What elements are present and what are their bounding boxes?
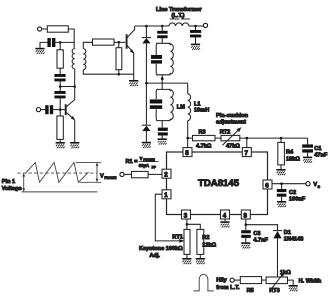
arrowheads measure [22, 162, 98, 192]
pin 4 [221, 210, 230, 219]
inductor LT (line transformer winding) [169, 23, 189, 26]
ground [158, 138, 167, 144]
junction [161, 25, 164, 28]
wire pin3 down [186, 219, 188, 229]
svg-text:TDA8145: TDA8145 [198, 178, 240, 189]
pin 5 [183, 148, 192, 157]
svg-text:R2: R2 [202, 235, 209, 241]
wire [245, 238, 247, 242]
wire [41, 109, 46, 111]
terminal frame drive [120, 172, 124, 176]
junction [118, 73, 121, 76]
pin 6 [263, 180, 272, 189]
ground [191, 44, 200, 50]
capacitor tank2 LM [150, 99, 162, 109]
ground [182, 258, 191, 264]
resistor Ra (input 1 series) [47, 26, 68, 32]
terminal input 2 [36, 108, 40, 112]
wire [59, 139, 61, 142]
wire [59, 81, 61, 91]
wire [145, 43, 147, 124]
diode Db [142, 125, 151, 131]
transformer secondary [83, 49, 86, 70]
resistor R4 [278, 142, 285, 165]
resistor Rb (vertical) [57, 50, 63, 68]
wiper arrow RT2 [222, 127, 241, 145]
wire [161, 38, 163, 43]
svg-text:7: 7 [245, 150, 249, 157]
wire [60, 86, 74, 88]
wire [124, 173, 131, 175]
junction [246, 137, 249, 140]
wire L1 to pin5 [187, 121, 189, 148]
label Vframe [100, 174, 117, 180]
label R1 formula [126, 156, 159, 170]
capacitor C1 [302, 144, 313, 152]
svg-text:Pin-cushion: Pin-cushion [216, 113, 249, 119]
svg-text:RT3: RT3 [269, 288, 280, 294]
diode Da [142, 38, 151, 44]
resistor R5 [240, 277, 261, 284]
wire [281, 197, 283, 201]
junction [245, 223, 248, 226]
svg-text:2: 2 [164, 172, 168, 179]
svg-text:S: S [318, 185, 321, 189]
svg-text:PP: PP [152, 165, 157, 169]
svg-text:R1 =: R1 = [126, 159, 139, 165]
ground [142, 142, 151, 148]
wire Q2 collector [74, 69, 76, 100]
junction [194, 25, 197, 28]
svg-text:6: 6 [265, 182, 269, 189]
arrow keystone [179, 239, 184, 243]
junction [186, 223, 189, 226]
resistor Rd (base series) [93, 39, 115, 45]
svg-text:D1: D1 [284, 230, 291, 236]
junction [280, 182, 283, 185]
transistor Q2 [66, 100, 75, 121]
wire [59, 42, 61, 74]
wire [148, 173, 162, 175]
wire D1 to RT3 [277, 238, 279, 277]
ground [220, 221, 229, 227]
wire L-node [146, 82, 187, 84]
svg-text:66μA: 66μA [139, 163, 149, 168]
svg-text:Hfly: Hfly [216, 278, 227, 284]
inductor L1 [188, 83, 191, 120]
capacitor Ct1 [157, 31, 167, 38]
terminal Vs [306, 182, 310, 186]
wire [59, 98, 61, 116]
wire [195, 37, 197, 43]
resistor R2 [197, 229, 204, 254]
waveform pin1 sawtooth [17, 162, 101, 192]
svg-text:Adj.: Adj. [149, 253, 160, 259]
capacitor Cb1 [54, 74, 65, 81]
pin 7 [242, 148, 251, 157]
inductor tank1 [170, 44, 173, 74]
pin 8 [241, 210, 250, 219]
transformer primary [72, 49, 75, 69]
capacitor C2 [277, 189, 287, 197]
capacitor Cb2 [54, 91, 65, 98]
capacitor tank1 [151, 55, 162, 64]
ground [303, 157, 312, 163]
wire to pin7 [246, 138, 248, 148]
tank1 frame [156, 43, 170, 75]
ground [70, 142, 79, 148]
svg-text:1: 1 [164, 192, 168, 199]
svg-text:FRAME: FRAME [104, 176, 117, 180]
svg-text:47kΩ: 47kΩ [226, 144, 240, 150]
wire R3 row [188, 137, 308, 139]
ground [56, 142, 65, 148]
svg-text:10mH: 10mH [194, 107, 209, 113]
wire to D1 [246, 225, 278, 231]
waveform Hfly pulse [193, 274, 213, 291]
potentiometer RT3 [266, 277, 287, 284]
wire node A [55, 41, 74, 43]
junction [186, 137, 189, 140]
resistor Re (bias vertical) [116, 48, 122, 70]
wire [195, 26, 197, 30]
svg-text:8: 8 [244, 212, 248, 219]
wire [199, 254, 201, 258]
wire C2 [281, 184, 283, 189]
ground [129, 80, 138, 86]
resistor R3 [193, 135, 216, 140]
svg-text:V: V [140, 156, 143, 161]
junction [161, 77, 164, 80]
junction [145, 82, 148, 85]
wire [161, 136, 163, 139]
junction [280, 137, 283, 140]
wire [262, 279, 267, 281]
svg-text:Pin 1: Pin 1 [2, 179, 15, 185]
svg-text:C3: C3 [253, 231, 260, 237]
svg-text:12kΩ: 12kΩ [202, 242, 216, 248]
wire pin8 down [245, 219, 247, 230]
wire diode branch [145, 26, 147, 37]
pin 1 [162, 190, 171, 199]
junction [59, 41, 62, 44]
ground [289, 285, 298, 291]
svg-text:LM: LM [177, 104, 185, 110]
capacitor Cf (flyback tuning) [190, 30, 201, 37]
wire [288, 280, 294, 285]
resistor Rc (base bias) [57, 116, 63, 139]
svg-text:4: 4 [223, 212, 227, 219]
svg-text:100nF: 100nF [289, 196, 306, 202]
terminal input 1 [38, 27, 42, 31]
wire [114, 41, 125, 43]
svg-text:3: 3 [184, 212, 188, 219]
ground [35, 48, 44, 54]
svg-text:RT1: RT1 [172, 234, 183, 240]
wire pin4 ground [224, 219, 226, 221]
wire Q2 emitter [74, 120, 76, 142]
wire [68, 29, 74, 49]
wire [133, 74, 135, 80]
wire [161, 121, 163, 128]
wire [161, 75, 163, 90]
wire pin6 out [272, 183, 306, 185]
svg-text:R4: R4 [286, 150, 294, 156]
svg-text:from L.T.: from L.T. [216, 285, 240, 291]
pin 3 [182, 210, 191, 219]
capacitor Ct2 [158, 128, 168, 136]
wire branch to R2 [187, 224, 200, 229]
svg-text:R3: R3 [199, 130, 206, 136]
wiper arrow RT3 [271, 272, 284, 289]
ground [276, 169, 285, 175]
svg-text:V: V [100, 174, 104, 180]
junction [145, 25, 148, 28]
transistor Q1 [127, 26, 135, 53]
wire [145, 131, 147, 142]
label Vs [313, 182, 320, 189]
svg-text:R5: R5 [247, 288, 254, 294]
inductor tank2 LM [170, 90, 173, 120]
svg-text:1N4148: 1N4148 [284, 236, 304, 242]
wire [42, 28, 48, 30]
potentiometer RT2 [221, 135, 240, 140]
wire pin1 to keystone pot [155, 194, 182, 241]
svg-text:H. Width: H. Width [299, 279, 322, 285]
ground [241, 242, 250, 248]
svg-text:C1: C1 [314, 146, 321, 152]
wire Q1 emitter [133, 53, 135, 74]
capacitor Cin2 (series) [45, 105, 53, 114]
svg-text:(L.T.): (L.T.) [172, 13, 185, 19]
wire top bus [135, 25, 169, 27]
ground [277, 201, 286, 207]
wire [307, 138, 309, 157]
terminal Hfly [230, 278, 234, 282]
svg-text:C2: C2 [289, 190, 296, 196]
diode D1 [273, 231, 282, 239]
wire secondary top [83, 42, 92, 48]
junction [73, 85, 76, 88]
svg-text:47nF: 47nF [314, 153, 328, 159]
wire [234, 279, 240, 281]
resistor R1 [132, 171, 149, 177]
junction [59, 85, 62, 88]
wire secondary bottom [83, 70, 133, 75]
capacitor Cin1 (to ground) [47, 38, 55, 47]
tank2 frame LM [156, 89, 170, 120]
junction [59, 108, 62, 111]
pin 2 [162, 169, 171, 178]
junction [118, 41, 121, 44]
wire [189, 25, 204, 27]
terminal EHT [203, 23, 207, 27]
svg-text:18kΩ: 18kΩ [286, 157, 300, 163]
svg-text:1kΩ: 1kΩ [280, 270, 291, 276]
potentiometer RT1 keystone [184, 229, 190, 254]
svg-text:Keystone 100kΩ: Keystone 100kΩ [139, 246, 183, 252]
wire [186, 254, 188, 258]
ground [196, 258, 205, 264]
IC U1 TDA8145 [167, 152, 268, 215]
svg-text:4.7nF: 4.7nF [253, 237, 268, 243]
wire [280, 138, 282, 169]
(L.T.) underline [170, 18, 191, 20]
svg-text:RT2: RT2 [220, 130, 231, 136]
svg-text:4.7kΩ: 4.7kΩ [196, 144, 212, 150]
wire [53, 109, 65, 111]
svg-text:5: 5 [185, 150, 189, 157]
svg-text:Voltage: Voltage [2, 186, 22, 192]
wire tank branch [161, 26, 163, 31]
svg-text:adjustment: adjustment [216, 119, 246, 125]
wire [118, 42, 120, 74]
capacitor C3 [241, 230, 251, 238]
wire [40, 42, 47, 47]
